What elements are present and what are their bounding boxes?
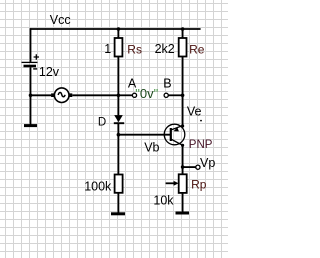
wire 100k to ground bbox=[117, 193, 119, 213]
wire Rs from rail down bbox=[117, 29, 119, 39]
battery B1 top plate bbox=[22, 61, 38, 63]
svg-text:Rp: Rp bbox=[191, 177, 207, 191]
svg-text:D: D bbox=[98, 117, 106, 129]
wire Re from rail down bbox=[182, 29, 184, 39]
junction dot Vp bbox=[181, 165, 185, 169]
junction dot rail-Rs bbox=[117, 27, 121, 31]
svg-text:B: B bbox=[163, 76, 171, 90]
wire Vcc top rail bbox=[30, 28, 201, 30]
battery minus sign bbox=[33, 68, 37, 70]
wire collector down to Vp junction bbox=[182, 145, 184, 174]
resistor Re bbox=[179, 38, 187, 57]
ground battery bbox=[24, 124, 37, 127]
wire junction to AC source bbox=[31, 94, 52, 96]
junction dot battery branch bbox=[29, 94, 33, 98]
svg-text:1: 1 bbox=[104, 42, 111, 56]
svg-text:Re: Re bbox=[189, 42, 205, 56]
svg-text:Ve: Ve bbox=[187, 104, 202, 118]
junction dot node A bbox=[117, 94, 121, 98]
wire left vertical from rail to battery bbox=[30, 28, 32, 62]
terminal Vp bbox=[196, 165, 200, 169]
wire diode to base junction to 100k bbox=[117, 124, 119, 175]
diode D triangle bbox=[114, 115, 123, 122]
battery plus sign bbox=[34, 54, 39, 59]
wire Rp to ground bbox=[182, 193, 184, 212]
battery B1 bottom plate bbox=[24, 65, 37, 68]
terminal A bbox=[132, 93, 136, 97]
svg-text:PNP: PNP bbox=[189, 139, 213, 151]
wire Re to node B junction bbox=[182, 57, 184, 96]
transistor Q1 PNP bbox=[164, 124, 185, 147]
wire AC source to node A bbox=[72, 94, 118, 96]
ground Rp bbox=[176, 212, 190, 215]
resistor Rs bbox=[115, 38, 123, 57]
diode D cathode bar bbox=[114, 122, 124, 124]
svg-text:10k: 10k bbox=[153, 193, 174, 207]
svg-text:Vcc: Vcc bbox=[50, 13, 71, 27]
resistor R2 100k bbox=[115, 175, 123, 193]
svg-text:100k: 100k bbox=[84, 179, 112, 193]
svg-text:12v: 12v bbox=[39, 65, 60, 79]
wire stub terminal B to Re branch bbox=[168, 94, 182, 96]
wire diode branch from node A down bbox=[117, 95, 119, 115]
terminal B bbox=[164, 93, 168, 97]
potentiometer Rp bbox=[179, 174, 187, 193]
svg-text:2k2: 2k2 bbox=[155, 42, 175, 56]
junction dot rail-Re bbox=[181, 27, 185, 31]
junction dot node B bbox=[181, 94, 185, 98]
svg-text:Vp: Vp bbox=[200, 156, 215, 170]
stray dot bbox=[200, 120, 202, 122]
junction dot base tee bbox=[117, 133, 121, 137]
wire base bbox=[118, 134, 170, 136]
ground 100k bbox=[111, 212, 125, 215]
svg-text:Vb: Vb bbox=[144, 140, 159, 154]
svg-text:Rs: Rs bbox=[127, 42, 142, 56]
wire battery to ground through junction bbox=[30, 67, 32, 124]
wire stub to terminal Vp bbox=[183, 166, 196, 168]
svg-text:"0v": "0v" bbox=[135, 86, 158, 101]
AC source V1 bbox=[51, 88, 72, 103]
wire Rs to node A bbox=[117, 57, 119, 96]
potentiometer wiper arrow bbox=[166, 181, 179, 186]
wire node B to transistor emitter bbox=[182, 95, 184, 126]
wire stub to terminal A bbox=[118, 94, 132, 96]
